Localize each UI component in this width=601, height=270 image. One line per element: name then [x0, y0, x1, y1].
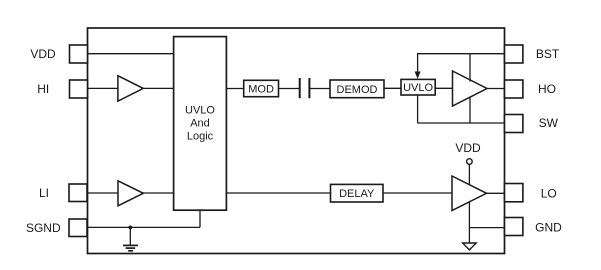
ground stem (signal ground)	[129, 227, 131, 244]
arrowhead into UVLO	[415, 72, 421, 79]
wire BST rail to driver top	[469, 54, 471, 82]
pin HI box	[70, 80, 88, 98]
UVLO block (high side)	[401, 79, 435, 95]
VDD terminal circle	[467, 159, 473, 165]
svg-text:SGND: SGND	[26, 221, 61, 235]
pin LI box	[69, 184, 87, 202]
wire MOD to isolation capacitor	[279, 88, 300, 90]
pin GND box	[505, 218, 523, 236]
low-side driver U4	[452, 176, 487, 211]
pin SGND box	[69, 219, 87, 237]
wire driver bottom to SW rail	[469, 97, 471, 124]
svg-text:MOD: MOD	[248, 84, 274, 96]
wire driver to HO pin	[487, 88, 505, 90]
wire BST rail	[418, 53, 505, 55]
junction dot on SGND wire	[128, 226, 132, 230]
pin HO box	[505, 80, 523, 98]
wire DELAY to low-side driver	[383, 192, 452, 194]
wire VDD terminal to driver top	[468, 164, 470, 184]
svg-text:DELAY: DELAY	[339, 188, 375, 200]
wire logic block to DELAY	[226, 192, 330, 194]
wire driver to LO pin	[487, 192, 505, 194]
svg-text:And: And	[190, 118, 210, 130]
ground symbol bar 2	[126, 247, 136, 249]
wire to GND pin	[469, 227, 504, 229]
svg-text:HO: HO	[538, 82, 556, 96]
input buffer U3 (LI)	[118, 181, 143, 206]
DEMOD block	[330, 80, 384, 98]
svg-text:VDD: VDD	[30, 47, 56, 61]
wire BST rail to UVLO arrow stem	[417, 53, 419, 73]
wire driver bottom to ground	[468, 202, 470, 243]
svg-text:VDD: VDD	[455, 141, 481, 155]
pin LO box	[505, 184, 523, 202]
svg-text:GND: GND	[535, 220, 562, 234]
wire LI buffer to logic block	[143, 192, 174, 194]
ground symbol (open triangle, low side)	[463, 243, 477, 250]
pin VDD box	[70, 45, 88, 63]
svg-text:BST: BST	[536, 47, 560, 61]
wire HI buffer to logic block	[143, 87, 174, 89]
input buffer U1 (HI)	[118, 76, 143, 102]
svg-text:SW: SW	[539, 116, 559, 130]
ground symbol bar 1	[123, 244, 138, 246]
wire HI pin to input buffer	[88, 87, 119, 89]
wire logic block to MOD	[226, 88, 243, 90]
wire SW rail	[418, 122, 505, 124]
wire vertical into logic block bottom	[199, 210, 201, 227]
svg-text:Logic: Logic	[187, 131, 214, 143]
wire LI pin to input buffer	[88, 192, 119, 194]
UVLO And Logic block	[174, 37, 227, 211]
svg-text:UVLO: UVLO	[185, 105, 215, 117]
svg-text:LI: LI	[39, 186, 49, 200]
wire DEMOD to UVLO	[384, 87, 401, 89]
pin SW box	[505, 115, 523, 133]
svg-text:UVLO: UVLO	[403, 82, 433, 94]
svg-text:HI: HI	[37, 82, 49, 96]
isolation capacitor C1 plate left	[299, 78, 301, 98]
pin BST box	[505, 45, 523, 63]
wire UVLO to high-side driver	[435, 87, 452, 89]
high-side driver U2	[453, 71, 488, 106]
wire capacitor to DEMOD	[309, 88, 330, 90]
svg-text:DEMOD: DEMOD	[337, 84, 378, 96]
wire SGND pin to logic block bottom	[88, 226, 201, 228]
wire UVLO bottom to SW rail	[417, 95, 419, 123]
svg-text:LO: LO	[541, 186, 557, 200]
wire VDD pin to logic block	[88, 53, 174, 55]
IC boundary	[88, 28, 505, 254]
MOD block	[244, 80, 279, 96]
DELAY block	[331, 184, 384, 202]
isolation capacitor C1 plate right	[308, 78, 310, 98]
ground symbol bar 3	[128, 250, 133, 252]
